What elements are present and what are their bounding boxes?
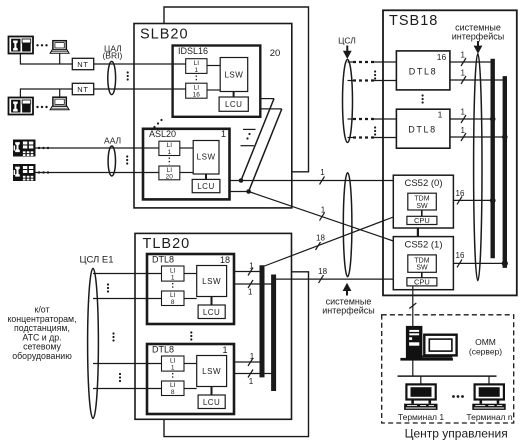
svg-text:LCU: LCU: [203, 308, 221, 317]
svg-text:1: 1: [250, 352, 255, 361]
cable ellipse system interfaces (middle): [343, 173, 352, 277]
svg-text:16: 16: [193, 92, 201, 99]
LSW box (DTL8-1): [197, 356, 227, 387]
svg-text:TSB18: TSB18: [389, 13, 438, 29]
svg-text:1: 1: [248, 288, 253, 297]
dotted continuation LI1..LI16: [195, 76, 197, 83]
dots more E1 lines group1: [107, 283, 109, 292]
svg-text:TDM: TDM: [414, 257, 429, 264]
LI 8 box (DTL8-18): [162, 291, 185, 306]
bus bar 2 (TLB20): [271, 275, 276, 392]
junction node barB-DTL8: [502, 134, 508, 140]
svg-text:16: 16: [456, 251, 465, 260]
arrow system interfaces (top): [474, 41, 483, 54]
dots more DTL8 boards (TLB20): [190, 331, 192, 340]
wire stub hidden board 1: [243, 128, 256, 130]
CPU box (CS52-1): [407, 278, 437, 286]
LI 1 box (IDSL16): [186, 59, 207, 74]
NT box 2: [72, 83, 93, 94]
svg-text:1: 1: [460, 108, 465, 117]
svg-text:LSW: LSW: [197, 153, 216, 162]
module ASL20 box: [143, 129, 230, 200]
wire CSL line 3: [348, 118, 397, 120]
wire E1 line 1: [93, 273, 162, 275]
module DTL8 no.16 box (TSB18 top): [396, 51, 450, 90]
svg-text:DTL8: DTL8: [152, 344, 174, 354]
svg-text:TDM: TDM: [414, 196, 429, 203]
wire LI1-LSW (DTL8-1): [184, 363, 197, 365]
wire LI1-LSW (ASL20): [180, 147, 193, 149]
module DTL8 no.1 box (TLB20 bottom): [147, 344, 234, 414]
cable ellipse CSL E1: [88, 268, 99, 418]
LI 1 box (DTL8-1): [162, 356, 185, 371]
icon analog phone 1: [13, 140, 36, 157]
wire TDM-CPU (CS52-0): [421, 210, 423, 216]
svg-text:оборудованию: оборудованию: [12, 351, 72, 361]
LSW box (ASL20): [193, 141, 219, 175]
wire LAN bus: [398, 375, 497, 377]
arrow CSL: [343, 46, 352, 60]
bus slanted line A (SLB20): [241, 99, 274, 181]
dots more ISDN terminals row1: [36, 44, 47, 46]
wire CSL line 4: [348, 137, 397, 139]
wire IDSL16 output stub A: [260, 98, 274, 100]
dots more DTL8 boards (TSB18): [422, 94, 424, 103]
svg-text:CS52 (0): CS52 (0): [404, 178, 442, 189]
wire E1 line 2: [93, 298, 162, 300]
wire CSL line 2: [348, 80, 397, 82]
svg-text:DTL8: DTL8: [152, 254, 174, 264]
icon terminal n: [472, 384, 505, 410]
icon laptop 2: [50, 97, 69, 110]
module DTL8 no.1 box (TSB18 bottom): [396, 109, 450, 148]
wire TDM-CPU (CS52-1): [421, 272, 423, 277]
wire TLB20 to CS52(0) diagonal: [265, 217, 394, 266]
svg-text:1: 1: [167, 149, 171, 156]
svg-text:LSW: LSW: [202, 277, 221, 286]
svg-text:NT: NT: [77, 85, 88, 94]
svg-text:CS52 (1): CS52 (1): [404, 240, 442, 251]
svg-text:1: 1: [194, 67, 198, 74]
icon ISDN phone 1: [9, 37, 34, 54]
junction node barA-CS52(0): [490, 198, 496, 204]
wire SLB20 to CS52(0): [230, 180, 394, 182]
svg-text:Терминал 1: Терминал 1: [398, 412, 445, 422]
module DTL8 no.18 box (TLB20 top): [147, 254, 234, 324]
dots more E1 lines group2: [112, 332, 114, 341]
svg-text:ЦСЛ Е1: ЦСЛ Е1: [79, 255, 113, 266]
block SLB20 front box: [134, 24, 292, 208]
slash mark CPU-OMM wire: [409, 303, 416, 309]
svg-text:Терминал n: Терминал n: [466, 412, 513, 422]
wire DTL8-1 output 1: [450, 118, 493, 120]
dots hidden board stubs: [246, 133, 250, 140]
CPU box (CS52-0): [407, 216, 437, 224]
dots more AAL lines: [126, 155, 128, 164]
LCU box (ASL20): [192, 179, 220, 192]
icon OMM server tower: [406, 326, 423, 359]
svg-text:1: 1: [249, 377, 254, 386]
module IDSL16 box: [173, 46, 261, 117]
cable ellipse AAL: [108, 146, 115, 176]
svg-text:16: 16: [437, 52, 447, 62]
bus bar A (TSB18): [491, 59, 495, 259]
wire NT2 to LI16 (BRI line 2): [94, 88, 186, 90]
LCU box (DTL8-18): [198, 305, 225, 319]
svg-text:1: 1: [221, 129, 226, 139]
block SLB20 back shelf box: [164, 7, 309, 172]
slash mark CS52(0) output: [457, 196, 462, 204]
dotted continuation LI1..LI8: [172, 373, 174, 380]
wire DTL8-16 output 2: [450, 79, 505, 81]
svg-text:LSW: LSW: [224, 71, 243, 80]
wire analog phone 2 to LI20 (AAL line 2): [36, 172, 159, 174]
svg-text:NT: NT: [77, 60, 88, 69]
svg-text:CPU: CPU: [414, 278, 430, 287]
svg-text:DTL8: DTL8: [408, 125, 436, 135]
dashed box control centre: [382, 315, 514, 423]
bus bar B (TSB18): [503, 76, 507, 268]
icon ISDN phone 2: [9, 98, 34, 115]
LI 1 box (DTL8-18): [162, 266, 185, 281]
icon analog phone 2: [13, 164, 36, 181]
bus bar 1 (TLB20): [260, 265, 265, 377]
svg-text:LI: LI: [170, 292, 176, 299]
wire LI20-LSW (ASL20): [180, 172, 193, 174]
LCU box (IDSL16): [219, 97, 248, 111]
wire LI1-LSW (DTL8-18): [184, 273, 197, 275]
wire analog phone 1 to LI1 (AAL line 1): [36, 147, 159, 149]
svg-text:SLB20: SLB20: [140, 27, 189, 43]
junction node B: [246, 189, 251, 194]
wire DTL8-1 output 2: [450, 136, 505, 138]
svg-text:LCU: LCU: [197, 182, 215, 191]
wire DTL8-1 output 1: [234, 361, 262, 363]
wire ASL20 output stub B: [230, 191, 249, 193]
slash mark CS52(1) output: [457, 259, 462, 267]
junction node A: [239, 178, 244, 183]
wire LI8-LSW (DTL8-18): [184, 298, 197, 300]
shelf under OMM: [400, 358, 453, 361]
LI 20 box (ASL20): [159, 166, 180, 180]
svg-text:20: 20: [270, 48, 281, 59]
wire CSL line 1: [348, 61, 397, 63]
wire LI1-LSW: [207, 65, 220, 67]
svg-text:интерфейсы: интерфейсы: [322, 306, 374, 316]
svg-text:1: 1: [460, 51, 465, 60]
svg-text:ASL20: ASL20: [149, 129, 176, 139]
svg-text:18: 18: [318, 267, 327, 276]
block TLB20 front box: [135, 233, 292, 419]
svg-text:IDSL16: IDSL16: [178, 46, 208, 56]
dots more E1 lines group3: [119, 373, 121, 382]
svg-text:8: 8: [171, 389, 175, 396]
wire NT1 to LI1 (BRI line 1): [94, 63, 186, 65]
wire LSW-LCU (ASL20): [205, 174, 207, 179]
wire LI8-LSW (DTL8-1): [184, 388, 197, 390]
icon OMM monitor: [422, 335, 456, 358]
wire terminal n drop: [488, 376, 490, 384]
dots more boards between IDSL16 and ASL20: [153, 119, 162, 128]
dots more analog phones row1: [38, 147, 49, 149]
slash marks DTL8 outputs TLB20: [248, 268, 253, 276]
svg-text:LI: LI: [167, 142, 173, 149]
bus slanted line B (SLB20): [249, 109, 282, 192]
LI 8 box (DTL8-1): [162, 381, 185, 396]
icon laptop 1: [50, 41, 69, 54]
slash mark wire TLB20-CS52(1): [319, 275, 324, 283]
svg-text:ЦСЛ: ЦСЛ: [338, 36, 356, 46]
svg-text:Центр управления: Центр управления: [405, 427, 508, 441]
wire server drop: [412, 360, 414, 376]
block TSB18 box: [383, 10, 517, 295]
wire E1 line 3: [93, 363, 162, 365]
wire LSW-LCU (DTL8-18): [211, 297, 213, 306]
svg-text:1: 1: [438, 110, 443, 120]
svg-text:ААЛ: ААЛ: [104, 136, 121, 146]
wire DTL8-16 output 1: [450, 61, 493, 63]
label k/ot network equipment: [7, 305, 76, 362]
wire CPU to OMM server: [412, 286, 414, 326]
slash mark wire SLB20-CS52(1): [320, 213, 325, 221]
wire laptop2 drop: [59, 89, 61, 97]
LSW box (IDSL16): [220, 58, 248, 92]
svg-text:1: 1: [460, 69, 465, 78]
dots more CSL lines group2: [374, 126, 376, 135]
wire DTL8-1 output 2: [234, 373, 274, 375]
module CS52 (1) box: [393, 237, 453, 290]
wire DTL8-18 output 2: [234, 283, 274, 285]
svg-text:CPU: CPU: [414, 216, 430, 225]
dots more CSL lines group1: [374, 70, 376, 79]
block TLB20 back shelf box: [164, 272, 309, 437]
wire E1 line 4: [93, 388, 162, 390]
wire laptop1 drop: [59, 54, 61, 65]
wire IDSL16 output stub B: [260, 108, 282, 110]
svg-text:16: 16: [456, 189, 465, 198]
svg-text:(сервер): (сервер): [469, 346, 502, 356]
wire stub hidden board 2: [241, 145, 255, 147]
dotted continuation LI1..LI20: [168, 158, 170, 165]
svg-text:1: 1: [222, 345, 227, 355]
cable ellipse CAL: [108, 61, 116, 94]
svg-text:1: 1: [321, 206, 326, 215]
dots more ISDN terminals row2: [36, 106, 47, 108]
svg-text:1: 1: [320, 168, 325, 177]
slash mark wire SLB20-CS52(0): [320, 177, 325, 185]
wire CS52(0) output 16: [453, 199, 492, 201]
junction node barA-DTL8: [490, 116, 496, 122]
svg-text:LI: LI: [170, 382, 176, 389]
svg-text:LI: LI: [170, 267, 176, 274]
TDM SW box (CS52-1): [408, 255, 437, 272]
svg-text:LI: LI: [170, 357, 176, 364]
svg-text:18: 18: [316, 234, 325, 243]
svg-text:интерфейсы: интерфейсы: [452, 31, 504, 41]
slash mark wire TLB20-CS52(0): [316, 242, 321, 250]
svg-text:18: 18: [220, 255, 230, 265]
NT box 1: [72, 58, 93, 69]
svg-text:LI: LI: [194, 84, 200, 91]
wire phone1 drop: [20, 54, 72, 65]
wire SLB20 to CS52(1) diagonal: [249, 192, 394, 242]
dots more terminals: [452, 395, 464, 398]
wire terminal 1 drop: [420, 376, 422, 384]
svg-text:LSW: LSW: [202, 367, 221, 376]
arrow system interfaces (bottom): [343, 283, 352, 296]
wire TLB20 to CS52(1): [276, 278, 393, 280]
LSW box (DTL8-18): [197, 266, 227, 297]
svg-text:(BRI): (BRI): [102, 51, 122, 61]
wire LSW-LCU: [233, 92, 235, 98]
TDM SW box (CS52-0): [408, 193, 437, 210]
module CS52 (0) box: [393, 175, 453, 228]
cable ellipse CSL: [343, 60, 353, 143]
wire CS52(1) output 16: [453, 262, 504, 264]
cable ellipse system interfaces (TSB18): [474, 54, 482, 281]
svg-text:SW: SW: [416, 265, 428, 272]
LCU box (DTL8-1): [198, 395, 225, 409]
svg-text:1: 1: [460, 126, 465, 135]
svg-text:LCU: LCU: [225, 100, 243, 109]
svg-text:TLB20: TLB20: [143, 236, 191, 252]
junction node barB-CS52(1): [502, 260, 508, 266]
slash marks DTL8 outputs TSB18: [461, 58, 466, 66]
svg-text:20: 20: [166, 174, 174, 181]
wire link CS52(0)-CS52(1): [417, 228, 419, 237]
wire DTL8-18 output 1: [234, 271, 262, 273]
dots more BRI lines: [127, 71, 129, 80]
wire phone2 drop: [20, 89, 72, 98]
LI 1 box (ASL20): [159, 141, 180, 155]
dots more analog phones row2: [38, 171, 49, 173]
svg-text:LCU: LCU: [203, 398, 221, 407]
svg-text:DTL8: DTL8: [409, 67, 437, 77]
wire LI16-LSW: [207, 89, 220, 91]
dotted continuation LI1..LI8: [172, 283, 174, 290]
wire LSW-LCU (DTL8-1): [211, 387, 213, 396]
svg-text:LI: LI: [194, 60, 200, 67]
icon terminal 1: [404, 384, 437, 410]
svg-text:1: 1: [171, 275, 175, 282]
LI 16 box (IDSL16): [186, 83, 207, 98]
svg-text:1: 1: [171, 365, 175, 372]
svg-text:SW: SW: [416, 203, 428, 210]
svg-text:8: 8: [171, 299, 175, 306]
svg-text:1: 1: [249, 262, 254, 271]
